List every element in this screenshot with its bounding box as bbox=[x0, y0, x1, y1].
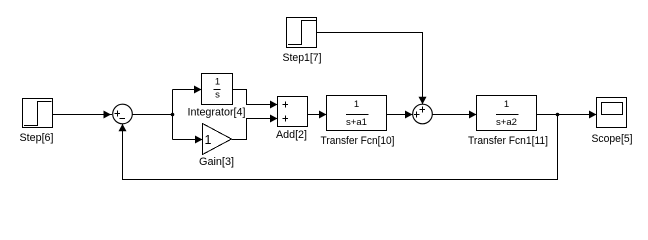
block internal texts bbox=[215, 77, 517, 129]
wire branch vertical bbox=[172, 90, 174, 140]
svg-text:Transfer Fcn[10]: Transfer Fcn[10] bbox=[321, 135, 395, 147]
wire Transfer Fcn1 to Scope bbox=[537, 114, 597, 116]
arrow into Sum left bbox=[104, 111, 112, 119]
svg-text:Step1[7]: Step1[7] bbox=[283, 52, 322, 64]
arrow into Scope bbox=[589, 111, 597, 119]
scope block Scope[5] bbox=[597, 98, 627, 128]
arrow into Sum bottom (feedback) bbox=[119, 124, 127, 131]
wire Sum1 to Transfer Fcn1 bbox=[433, 114, 477, 116]
arrow into Sum1 left bbox=[405, 111, 413, 119]
junction dot after Sum bbox=[171, 113, 175, 117]
arrow into Gain bbox=[195, 136, 203, 144]
adder block Add[2] bbox=[278, 97, 308, 127]
svg-text:s: s bbox=[215, 90, 220, 101]
plus sign of Sum bbox=[115, 111, 121, 117]
wire Transfer Fcn to Sum1 bbox=[387, 114, 413, 116]
transfer function block Transfer Fcn[10] bbox=[327, 96, 387, 131]
svg-text:Integrator[4]: Integrator[4] bbox=[188, 107, 246, 119]
feedback wire from output node down and back to Sum bbox=[123, 115, 558, 180]
svg-text:1: 1 bbox=[215, 77, 220, 88]
sum junction Sum1 (++) bbox=[413, 104, 433, 124]
wire Step1 to Sum1 top bbox=[317, 33, 423, 105]
wire Integrator to Add bbox=[233, 90, 278, 105]
wire Add to Transfer Fcn bbox=[308, 114, 327, 116]
wire Step[6] to Sum bbox=[53, 114, 113, 116]
arrow into Integrator bbox=[194, 86, 202, 94]
minus sign of Sum bbox=[120, 118, 126, 120]
arrowheads bbox=[104, 86, 597, 144]
arrow into Add top bbox=[270, 101, 278, 109]
svg-text:Add[2]: Add[2] bbox=[276, 129, 307, 141]
transfer function block Transfer Fcn1[11] bbox=[477, 96, 537, 131]
junction dot before Scope bbox=[556, 113, 560, 117]
arrow into Transfer Fcn bbox=[319, 111, 327, 119]
svg-text:Transfer Fcn1[11]: Transfer Fcn1[11] bbox=[468, 135, 548, 147]
step source Step1[7] bbox=[287, 18, 317, 48]
top plus sign of Sum1 bbox=[420, 107, 426, 113]
left plus sign of Sum1 bbox=[414, 112, 420, 118]
svg-text:Step[6]: Step[6] bbox=[20, 132, 54, 144]
svg-text:s+a2: s+a2 bbox=[496, 117, 517, 128]
arrow into Sum1 top bbox=[419, 97, 427, 104]
svg-text:Scope[5]: Scope[5] bbox=[592, 133, 633, 145]
svg-text:1: 1 bbox=[354, 99, 359, 110]
sum junction Sum (+-) bbox=[113, 104, 133, 124]
wire Gain to Add bbox=[232, 119, 278, 140]
svg-text:s+a1: s+a1 bbox=[346, 117, 367, 128]
svg-text:1: 1 bbox=[205, 133, 212, 147]
svg-text:Gain[3]: Gain[3] bbox=[199, 156, 234, 168]
block labels bbox=[20, 52, 633, 168]
svg-text:1: 1 bbox=[504, 99, 509, 110]
arrow into Transfer Fcn1 bbox=[469, 111, 477, 119]
arrow into Add bottom bbox=[270, 115, 278, 123]
wire Sum output to branch node bbox=[133, 114, 173, 116]
wire branch to Gain bbox=[173, 139, 203, 141]
wire branch to Integrator bbox=[173, 89, 202, 91]
gain block Gain[3] bbox=[203, 124, 232, 155]
integrator block Integrator[4] bbox=[202, 74, 233, 105]
step source Step[6] bbox=[23, 99, 53, 128]
